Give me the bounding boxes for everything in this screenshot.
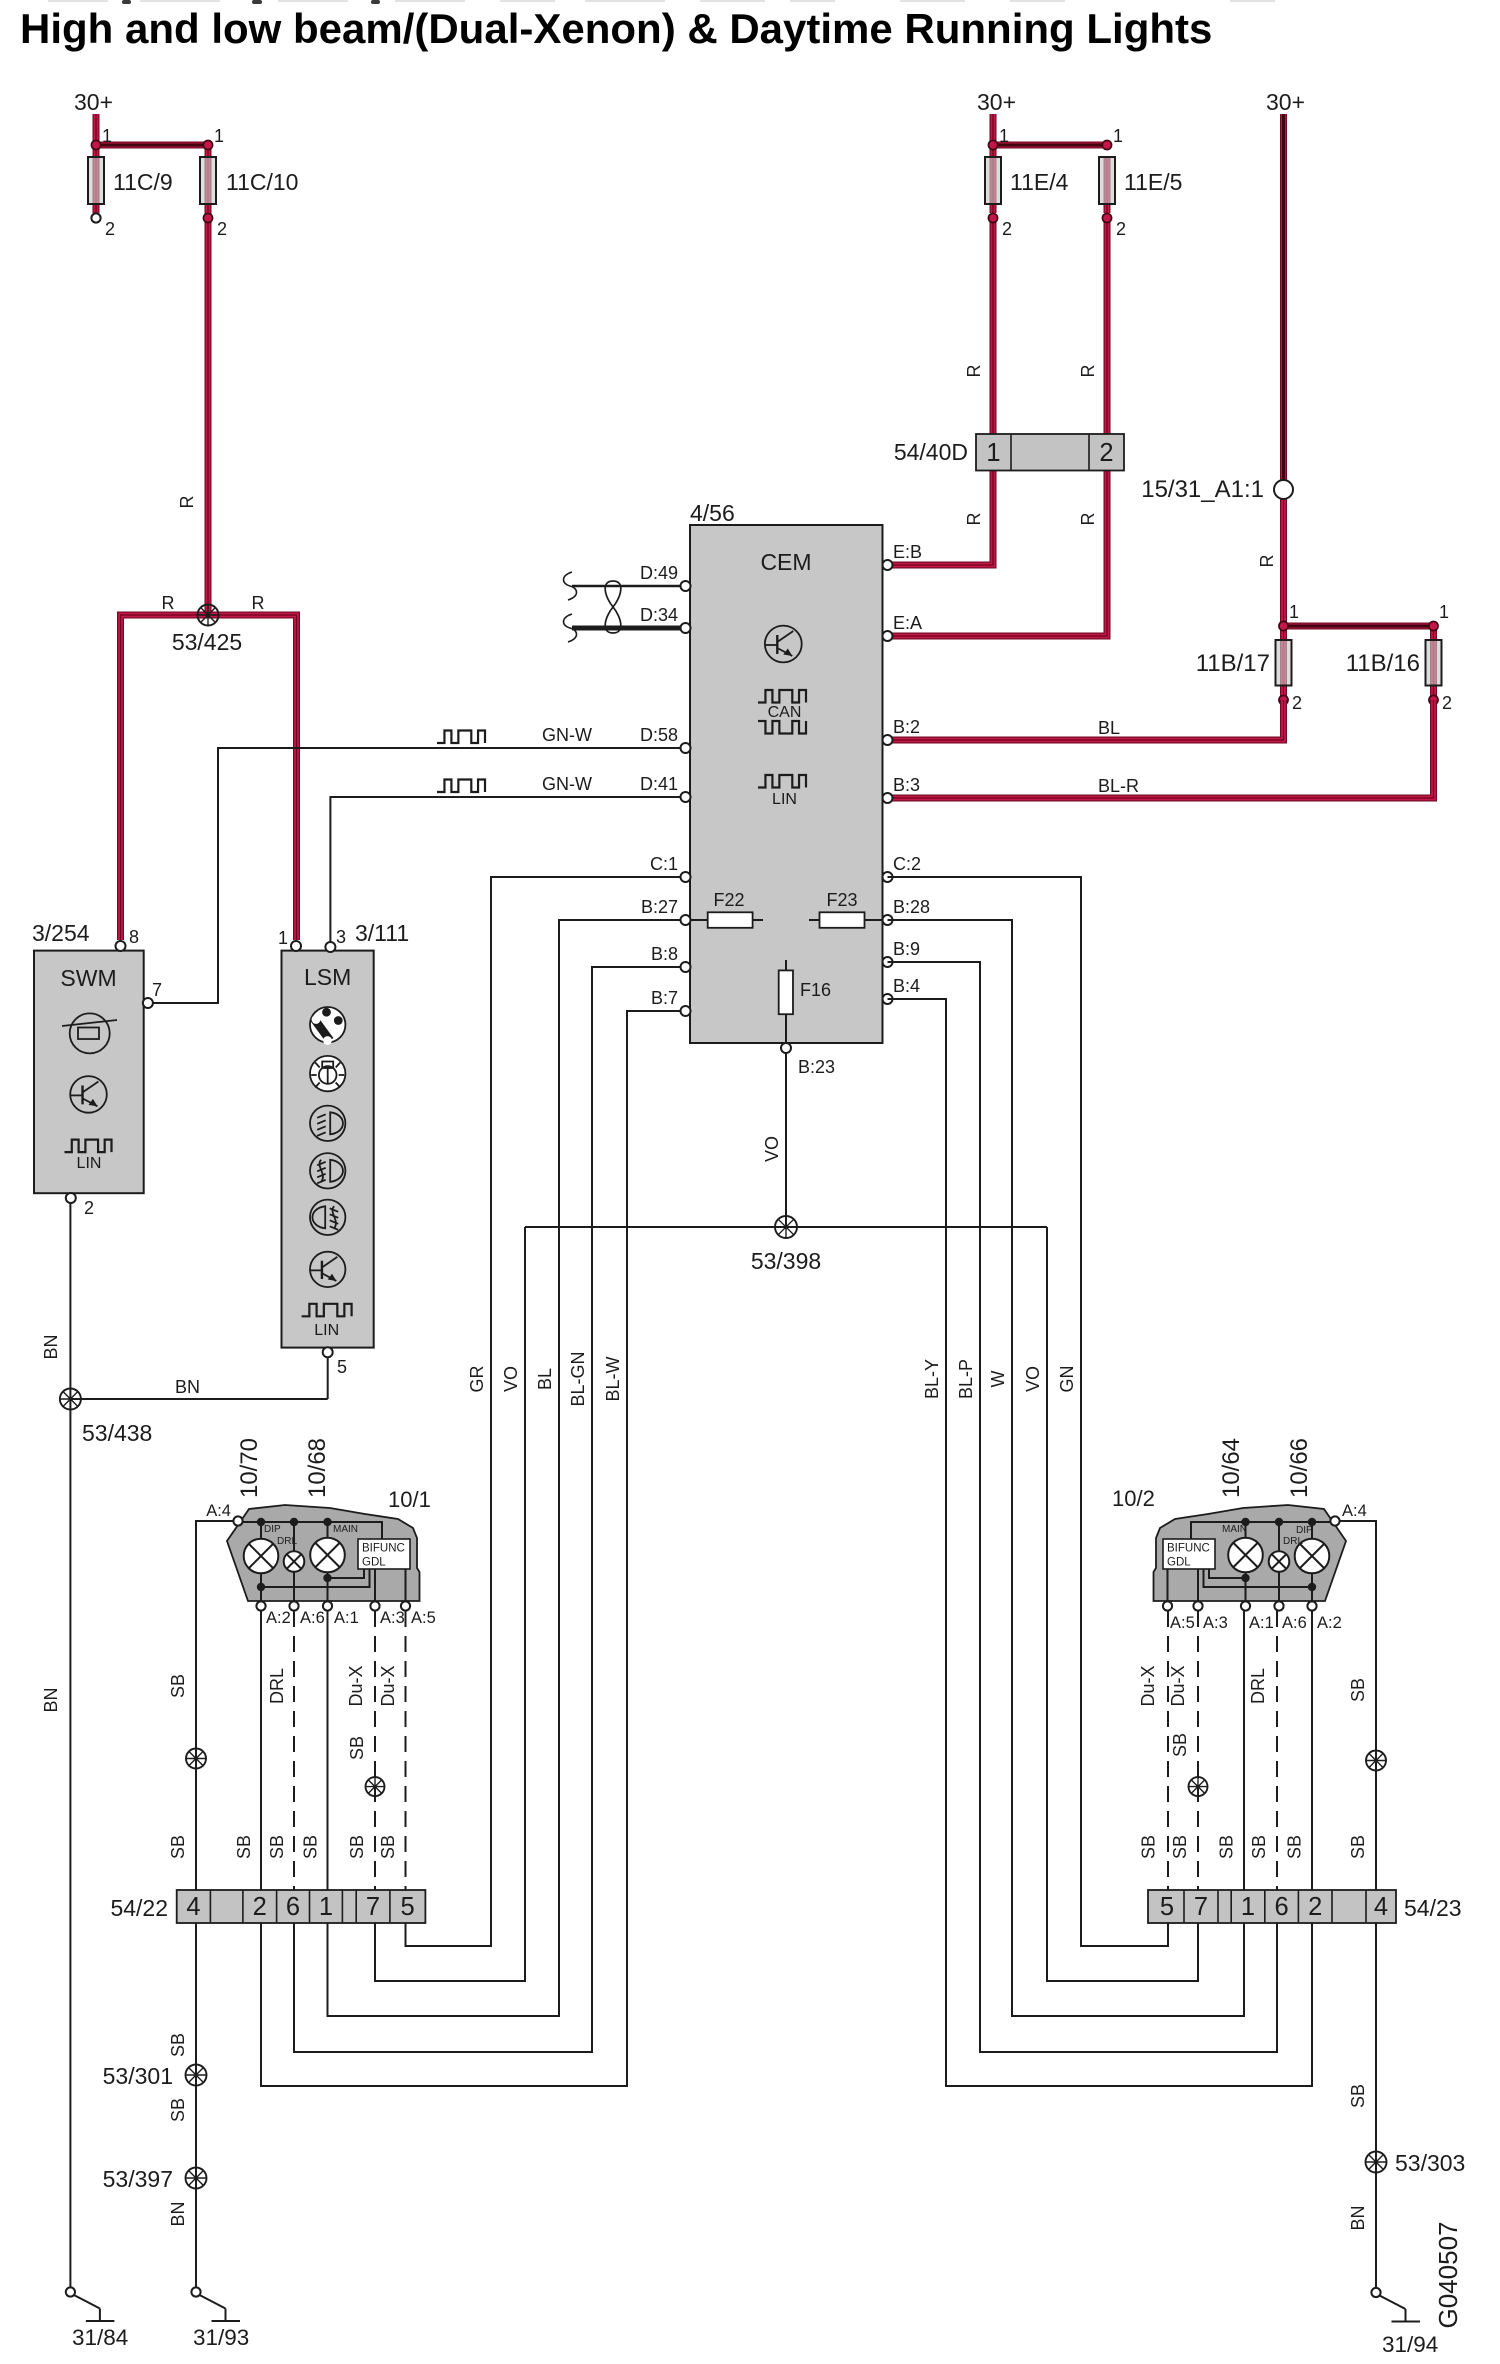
- svg-text:G040507: G040507: [1433, 2222, 1463, 2329]
- svg-text:1: 1: [1289, 602, 1299, 622]
- svg-text:BL-R: BL-R: [1098, 776, 1139, 796]
- svg-text:SB: SB: [1285, 1835, 1305, 1859]
- svg-text:2: 2: [1099, 439, 1113, 467]
- svg-text:11E/4: 11E/4: [1010, 169, 1069, 195]
- svg-text:SB: SB: [1139, 1835, 1159, 1859]
- svg-text:SB: SB: [168, 2033, 188, 2057]
- svg-text:2: 2: [84, 1198, 94, 1218]
- svg-text:SB: SB: [1348, 2084, 1368, 2108]
- svg-text:6: 6: [286, 1893, 300, 1921]
- svg-text:DIP: DIP: [1296, 1525, 1313, 1536]
- svg-text:BL-P: BL-P: [956, 1359, 976, 1399]
- svg-text:LIN: LIN: [314, 1322, 339, 1339]
- svg-text:SB: SB: [1348, 1835, 1368, 1859]
- svg-text:SB: SB: [168, 2098, 188, 2122]
- svg-text:VO: VO: [762, 1136, 782, 1162]
- svg-text:4/56: 4/56: [690, 500, 735, 526]
- svg-text:Du-X: Du-X: [1138, 1665, 1158, 1706]
- svg-text:R: R: [252, 593, 265, 613]
- svg-text:SB: SB: [168, 1674, 188, 1698]
- svg-text:C:2: C:2: [893, 854, 921, 874]
- svg-text:BN: BN: [175, 1377, 200, 1397]
- svg-text:SWM: SWM: [60, 965, 116, 991]
- svg-text:B:28: B:28: [893, 897, 930, 917]
- svg-text:A:4: A:4: [206, 1502, 231, 1520]
- svg-text:10/68: 10/68: [304, 1438, 331, 1498]
- svg-text:BIFUNC: BIFUNC: [362, 1543, 405, 1555]
- svg-text:R: R: [1078, 365, 1098, 378]
- svg-text:D:41: D:41: [640, 774, 678, 794]
- svg-text:BIFUNC: BIFUNC: [1167, 1543, 1210, 1555]
- svg-text:53/301: 53/301: [103, 2063, 173, 2089]
- svg-text:B:3: B:3: [893, 775, 920, 795]
- svg-text:Du-X: Du-X: [1168, 1665, 1188, 1706]
- svg-text:E:A: E:A: [893, 613, 922, 633]
- svg-text:53/398: 53/398: [751, 1248, 821, 1274]
- svg-text:GDL: GDL: [1167, 1557, 1191, 1569]
- svg-text:7: 7: [1194, 1893, 1208, 1921]
- svg-text:2: 2: [1002, 219, 1012, 239]
- svg-text:DRL: DRL: [267, 1668, 287, 1704]
- svg-text:SB: SB: [301, 1835, 321, 1859]
- svg-text:2: 2: [1442, 693, 1452, 713]
- svg-text:MAIN: MAIN: [1222, 1524, 1247, 1535]
- svg-text:SB: SB: [1348, 1678, 1368, 1702]
- svg-text:A:5: A:5: [411, 1609, 436, 1627]
- svg-text:SB: SB: [168, 1835, 188, 1859]
- svg-text:B:27: B:27: [641, 897, 678, 917]
- svg-text:53/303: 53/303: [1395, 2150, 1465, 2176]
- svg-text:10/1: 10/1: [388, 1487, 431, 1512]
- svg-text:8: 8: [129, 927, 139, 947]
- svg-text:A:1: A:1: [1249, 1614, 1274, 1632]
- svg-text:SB: SB: [378, 1835, 398, 1859]
- svg-text:1: 1: [1439, 602, 1449, 622]
- svg-text:CAN: CAN: [768, 704, 802, 721]
- svg-text:LIN: LIN: [772, 791, 797, 808]
- svg-text:2: 2: [1292, 693, 1302, 713]
- svg-text:10/70: 10/70: [236, 1438, 263, 1498]
- svg-text:A:2: A:2: [266, 1609, 291, 1627]
- svg-text:VO: VO: [1023, 1366, 1043, 1392]
- svg-text:SB: SB: [1217, 1835, 1237, 1859]
- svg-text:W: W: [988, 1371, 1008, 1388]
- svg-text:B:23: B:23: [798, 1057, 835, 1077]
- svg-text:5: 5: [1160, 1893, 1174, 1921]
- svg-text:B:7: B:7: [651, 988, 678, 1008]
- svg-text:B:2: B:2: [893, 717, 920, 737]
- svg-text:A:3: A:3: [380, 1609, 405, 1627]
- svg-text:1: 1: [1241, 1893, 1255, 1921]
- svg-text:4: 4: [1374, 1893, 1388, 1921]
- svg-text:11E/5: 11E/5: [1124, 169, 1182, 195]
- svg-text:4: 4: [186, 1893, 200, 1921]
- svg-text:DRL: DRL: [1248, 1668, 1268, 1704]
- svg-text:31/84: 31/84: [72, 2325, 128, 2350]
- svg-text:53/397: 53/397: [103, 2166, 173, 2192]
- svg-text:R: R: [162, 593, 175, 613]
- svg-text:30+: 30+: [977, 89, 1016, 115]
- svg-text:B:4: B:4: [893, 976, 920, 996]
- svg-text:F16: F16: [800, 980, 831, 1000]
- svg-text:3/254: 3/254: [32, 920, 90, 946]
- svg-text:54/40D: 54/40D: [894, 439, 968, 465]
- svg-text:2: 2: [105, 219, 115, 239]
- svg-text:F22: F22: [713, 890, 744, 910]
- svg-text:Du-X: Du-X: [378, 1665, 398, 1706]
- svg-text:1: 1: [319, 1893, 333, 1921]
- svg-text:CEM: CEM: [760, 549, 811, 575]
- svg-text:54/23: 54/23: [1404, 1895, 1462, 1921]
- svg-text:SB: SB: [234, 1835, 254, 1859]
- svg-text:15/31_A1:1: 15/31_A1:1: [1141, 476, 1264, 503]
- svg-text:A:5: A:5: [1170, 1614, 1195, 1632]
- svg-text:BN: BN: [168, 2201, 188, 2226]
- svg-text:A:4: A:4: [1342, 1502, 1367, 1520]
- svg-text:5: 5: [337, 1357, 347, 1377]
- svg-text:B:9: B:9: [893, 939, 920, 959]
- svg-text:D:58: D:58: [640, 725, 678, 745]
- svg-text:GR: GR: [467, 1365, 487, 1392]
- svg-text:1: 1: [102, 126, 112, 146]
- svg-text:BL-Y: BL-Y: [922, 1359, 942, 1399]
- svg-text:SB: SB: [347, 1736, 367, 1760]
- svg-text:10/2: 10/2: [1112, 1486, 1155, 1511]
- svg-text:53/425: 53/425: [172, 629, 242, 655]
- svg-text:R: R: [177, 496, 197, 509]
- svg-text:BL-GN: BL-GN: [568, 1351, 588, 1406]
- svg-text:SB: SB: [1170, 1835, 1190, 1859]
- svg-text:1: 1: [1113, 126, 1123, 146]
- svg-text:11C/10: 11C/10: [226, 169, 298, 195]
- svg-text:30+: 30+: [1266, 89, 1305, 115]
- svg-text:BL: BL: [535, 1368, 555, 1390]
- svg-text:B:8: B:8: [651, 944, 678, 964]
- svg-text:SB: SB: [1170, 1733, 1190, 1757]
- svg-text:A:2: A:2: [1317, 1614, 1342, 1632]
- svg-text:E:B: E:B: [893, 542, 922, 562]
- svg-text:30+: 30+: [74, 89, 113, 115]
- svg-text:2: 2: [217, 219, 227, 239]
- svg-text:7: 7: [152, 980, 162, 1000]
- svg-text:3: 3: [336, 927, 346, 947]
- svg-text:D:34: D:34: [640, 605, 678, 625]
- svg-text:SB: SB: [267, 1835, 287, 1859]
- svg-text:BN: BN: [41, 1334, 61, 1359]
- svg-text:LIN: LIN: [77, 1155, 102, 1172]
- svg-text:DIP: DIP: [264, 1524, 281, 1535]
- svg-text:2: 2: [1308, 1893, 1322, 1921]
- svg-text:31/93: 31/93: [193, 2325, 249, 2350]
- svg-text:31/94: 31/94: [1382, 2332, 1438, 2357]
- svg-text:10/66: 10/66: [1286, 1438, 1313, 1498]
- svg-text:LSM: LSM: [304, 964, 351, 990]
- svg-text:R: R: [964, 365, 984, 378]
- svg-text:1: 1: [278, 928, 288, 948]
- svg-text:11B/16: 11B/16: [1346, 650, 1420, 677]
- svg-text:R: R: [964, 513, 984, 526]
- svg-text:F23: F23: [826, 890, 857, 910]
- svg-text:BL: BL: [1098, 718, 1120, 738]
- svg-text:C:1: C:1: [650, 854, 678, 874]
- svg-text:2: 2: [1116, 219, 1126, 239]
- svg-text:A:6: A:6: [1282, 1614, 1307, 1632]
- svg-text:53/438: 53/438: [82, 1420, 152, 1446]
- svg-text:A:1: A:1: [334, 1609, 359, 1627]
- svg-text:A:3: A:3: [1203, 1614, 1228, 1632]
- svg-text:Du-X: Du-X: [346, 1665, 366, 1706]
- svg-text:5: 5: [401, 1893, 415, 1921]
- svg-text:MAIN: MAIN: [333, 1524, 358, 1535]
- svg-text:DRL: DRL: [277, 1536, 297, 1547]
- svg-text:6: 6: [1275, 1893, 1289, 1921]
- svg-text:GDL: GDL: [362, 1557, 386, 1569]
- svg-text:7: 7: [366, 1893, 380, 1921]
- svg-text:3/111: 3/111: [355, 920, 409, 946]
- svg-text:DRL: DRL: [1283, 1536, 1303, 1547]
- svg-text:BN: BN: [41, 1687, 61, 1712]
- svg-text:2: 2: [253, 1893, 267, 1921]
- svg-text:High and low beam/(Dual-Xenon): High and low beam/(Dual-Xenon) & Daytime…: [20, 5, 1212, 52]
- svg-text:A:6: A:6: [300, 1609, 325, 1627]
- svg-text:10/64: 10/64: [1218, 1438, 1245, 1498]
- svg-text:11C/9: 11C/9: [113, 169, 173, 195]
- svg-text:GN-W: GN-W: [542, 774, 592, 794]
- svg-text:R: R: [1257, 555, 1277, 568]
- svg-text:SB: SB: [1249, 1835, 1269, 1859]
- svg-text:11B/17: 11B/17: [1196, 650, 1270, 677]
- svg-text:GN: GN: [1057, 1366, 1077, 1393]
- svg-text:SB: SB: [347, 1835, 367, 1859]
- svg-text:R: R: [1078, 513, 1098, 526]
- svg-text:1: 1: [986, 439, 1000, 467]
- svg-text:GN-W: GN-W: [542, 725, 592, 745]
- svg-text:1: 1: [214, 126, 224, 146]
- svg-text:D:49: D:49: [640, 563, 678, 583]
- svg-text:BN: BN: [1348, 2205, 1368, 2230]
- svg-text:1: 1: [999, 126, 1009, 146]
- svg-text:54/22: 54/22: [110, 1895, 168, 1921]
- svg-text:BL-W: BL-W: [603, 1356, 623, 1401]
- svg-text:VO: VO: [501, 1366, 521, 1392]
